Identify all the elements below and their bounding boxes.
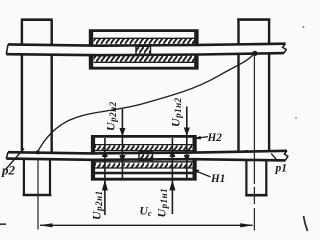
dimension line Uc	[39, 223, 253, 227]
extension line right	[253, 56, 255, 231]
capacitor block 1 (top)	[89, 29, 199, 69]
svg-text:H1: H1	[210, 173, 225, 185]
svg-text:р1: р1	[275, 163, 288, 175]
plate strip top (hatched)	[94, 38, 195, 45]
voltage arrow line Up1n1 (up)	[169, 138, 175, 214]
scan mark bottom right	[304, 216, 308, 231]
inner lower line	[95, 172, 193, 175]
plate strip bottom (hatched)	[94, 55, 195, 62]
node dot on top beam	[252, 51, 257, 56]
node dot on middle beam	[36, 150, 40, 154]
voltage arrow line Up2n2 (down)	[119, 109, 125, 178]
middle beam (lower suspension bar)	[6, 151, 288, 161]
extension line left	[37, 158, 39, 230]
svg-text:H2: H2	[207, 132, 223, 144]
top beam (upper suspension bar)	[6, 44, 286, 56]
scan mark left margin	[0, 223, 6, 225]
label p1 with slash	[271, 154, 287, 175]
svg-text:р2: р2	[1, 163, 16, 178]
capacitor block 2 (middle)	[91, 135, 197, 180]
svg-text:Uc: Uc	[140, 206, 152, 219]
central moving plate of block 1	[136, 46, 151, 54]
right column	[237, 19, 270, 196]
voltage arrow line Up1n2 (down)	[184, 107, 190, 179]
plate H1 strip (hatched)	[95, 162, 193, 169]
left column	[21, 19, 52, 195]
scan specks	[303, 26, 305, 28]
label p2 with slash	[1, 149, 24, 178]
label H1 with leader	[192, 170, 225, 186]
voltage arrow line Up2n1 (up)	[102, 138, 108, 215]
label H2 with leader	[194, 132, 223, 144]
central moving plate of block 2	[139, 152, 153, 161]
deflection curve	[38, 53, 255, 151]
plate H2 strip (hatched)	[95, 144, 193, 151]
